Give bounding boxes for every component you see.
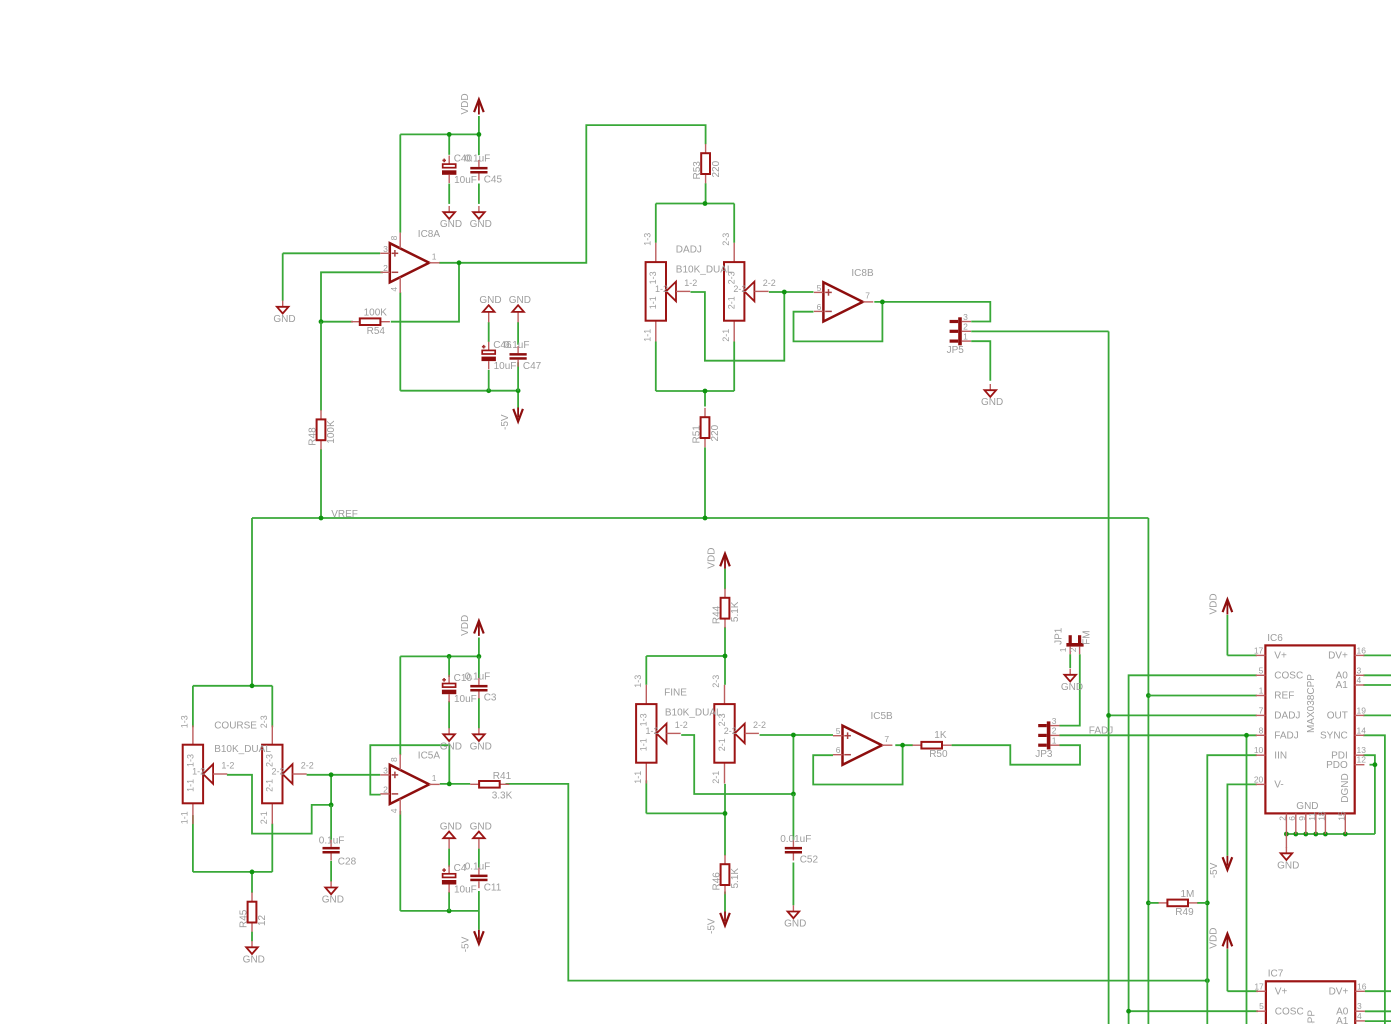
svg-text:0.1uF: 0.1uF	[465, 672, 491, 683]
svg-text:GND: GND	[440, 741, 462, 752]
svg-text:10uF: 10uF	[454, 175, 477, 186]
wire R53 to DADJ top rail	[656, 183, 734, 243]
svg-text:VDD: VDD	[1209, 928, 1220, 949]
svg-text:GND: GND	[470, 822, 492, 833]
op-amp IC5B	[833, 711, 893, 765]
wire R51 to VREF	[704, 447, 706, 518]
svg-text:2-1: 2-1	[717, 738, 727, 751]
svg-text:8: 8	[1259, 725, 1264, 735]
wire C11 pins	[478, 849, 480, 911]
wire FINE bottom rail to R46	[646, 780, 727, 855]
wire -5V rail IC8A	[400, 292, 520, 407]
wire R48 to VREF	[320, 322, 322, 518]
potentiometer FINE section 2	[711, 675, 766, 784]
svg-text:1-1: 1-1	[633, 771, 643, 784]
svg-text:100K: 100K	[326, 420, 337, 444]
svg-text:3.3K: 3.3K	[492, 791, 513, 802]
svg-text:1-1: 1-1	[642, 329, 652, 342]
svg-text:GND: GND	[440, 822, 462, 833]
svg-text:0.1uF: 0.1uF	[465, 861, 491, 872]
svg-text:VDD: VDD	[1209, 593, 1220, 614]
svg-text:VDD: VDD	[706, 548, 717, 569]
ground	[470, 206, 492, 230]
wire R49 taps	[1148, 902, 1207, 904]
svg-text:B10K_DUAL: B10K_DUAL	[665, 707, 722, 718]
svg-text:2-3: 2-3	[265, 754, 275, 767]
svg-text:FADJ: FADJ	[1089, 725, 1113, 736]
potentiometer FINE section 1	[633, 675, 688, 784]
svg-text:GND: GND	[1277, 860, 1299, 871]
svg-text:1M: 1M	[1181, 889, 1195, 900]
wire VDD via R44 to FINE	[724, 569, 726, 656]
wire COURSE bottom rail to R45	[193, 815, 272, 893]
wire IC6 V- to -5V	[1227, 784, 1257, 855]
capacitor C4 10uF (polarized)	[442, 863, 477, 895]
svg-text:VREF: VREF	[331, 509, 358, 520]
svg-text:18: 18	[1317, 811, 1327, 821]
ground	[1277, 847, 1299, 871]
svg-text:B10K_DUAL: B10K_DUAL	[676, 264, 733, 275]
svg-text:0.1uF: 0.1uF	[319, 835, 345, 846]
svg-text:2-2: 2-2	[733, 284, 746, 294]
svg-text:2-2: 2-2	[272, 767, 285, 777]
svg-text:5: 5	[817, 283, 822, 293]
svg-text:10uF: 10uF	[454, 885, 477, 896]
svg-text:1-1: 1-1	[185, 779, 195, 792]
label C52 0.01uF	[780, 834, 818, 866]
svg-text:4: 4	[1357, 1011, 1362, 1021]
svg-text:16: 16	[1357, 981, 1367, 991]
svg-text:5: 5	[836, 726, 841, 736]
resistor R44 5.1K	[711, 589, 741, 628]
svg-text:0.1uF: 0.1uF	[504, 340, 530, 351]
svg-text:5.1K: 5.1K	[730, 601, 741, 622]
wire -5V rail IC5A	[400, 811, 479, 930]
IC IC7 MAX038CPP	[1254, 969, 1366, 1029]
wire DADJ bottom rail to R51	[656, 342, 734, 407]
capacitor C10 10uF (polarized)	[442, 673, 477, 705]
svg-text:1-3: 1-3	[180, 715, 190, 728]
wire C28 pins	[330, 805, 332, 882]
svg-text:2-2: 2-2	[301, 760, 314, 770]
svg-text:COSC: COSC	[1275, 1006, 1304, 1017]
wire IC7 A1 out	[1365, 1020, 1391, 1022]
svg-text:2: 2	[1052, 726, 1057, 736]
svg-text:7: 7	[884, 734, 889, 744]
svg-text:C45: C45	[484, 175, 503, 186]
svg-text:2: 2	[963, 322, 968, 332]
capacitor C46 10uF (polarized)	[482, 340, 517, 372]
ground	[243, 941, 265, 965]
op-amp IC8A	[380, 229, 440, 293]
svg-text:GND: GND	[470, 219, 492, 230]
wire C3 pins	[478, 656, 480, 728]
svg-text:IC8B: IC8B	[851, 268, 874, 279]
svg-text:2-3: 2-3	[711, 675, 721, 688]
svg-text:GND: GND	[479, 295, 501, 306]
svg-text:GND: GND	[322, 895, 344, 906]
label C28 0.1uF	[319, 835, 357, 867]
label DADJ B10K_DUAL	[676, 244, 733, 275]
svg-text:DV+: DV+	[1329, 987, 1349, 998]
svg-text:VDD: VDD	[460, 615, 471, 636]
svg-text:16: 16	[1357, 645, 1367, 655]
svg-text:FADJ: FADJ	[1274, 731, 1298, 742]
svg-text:6: 6	[1287, 816, 1297, 821]
resistor R46 5.1K	[711, 855, 741, 894]
wire R45 to GND	[251, 932, 253, 942]
svg-text:PDO: PDO	[1326, 760, 1348, 771]
svg-text:1-3: 1-3	[648, 271, 658, 284]
capacitor C28 0.1uF	[323, 840, 340, 861]
svg-text:A1: A1	[1336, 680, 1349, 691]
capacitor C40 10uF (polarized)	[442, 154, 477, 186]
svg-text:V-: V-	[1274, 780, 1283, 791]
ground	[440, 206, 462, 230]
svg-text:SYNC: SYNC	[1320, 731, 1348, 742]
svg-text:JP3: JP3	[1035, 749, 1053, 760]
svg-text:1: 1	[432, 773, 437, 783]
svg-text:2-2: 2-2	[724, 726, 737, 736]
wire R46 to -5V	[724, 892, 726, 912]
wire IC8A pin2 feedback node	[319, 263, 459, 324]
svg-text:-5V: -5V	[500, 414, 511, 430]
svg-text:JP5: JP5	[947, 345, 965, 356]
wire net FADJ	[1059, 733, 1257, 1024]
jumper JP1	[1053, 627, 1092, 654]
VDD supply	[460, 615, 484, 636]
svg-text:1: 1	[963, 331, 968, 341]
resistor R49 1M	[1159, 889, 1198, 918]
svg-text:1-1: 1-1	[639, 738, 649, 751]
svg-text:1-3: 1-3	[642, 233, 652, 246]
wire net IIN	[1205, 755, 1257, 1024]
wire FINE top rail	[646, 654, 727, 685]
svg-text:2-3: 2-3	[259, 715, 269, 728]
wire IC5A feedback	[370, 745, 449, 794]
svg-text:GND: GND	[243, 954, 265, 965]
wire IC7 DV+ out	[1365, 990, 1391, 992]
wire net REF to IC6	[1148, 695, 1257, 697]
wire C47 pins	[517, 322, 519, 391]
VDD supply	[1209, 928, 1233, 949]
svg-text:R49: R49	[1175, 907, 1194, 918]
wire C45 to GND	[478, 184, 480, 204]
svg-text:2: 2	[383, 784, 388, 794]
-5V supply	[707, 912, 730, 935]
svg-text:3: 3	[383, 244, 388, 254]
svg-text:IC6: IC6	[1267, 633, 1283, 644]
svg-text:C3: C3	[484, 693, 497, 704]
svg-text:7: 7	[1259, 705, 1264, 715]
wire net SYNC	[1363, 735, 1385, 1024]
resistor R54 100K	[351, 308, 390, 337]
wire C40 to GND	[448, 184, 450, 204]
resistor R41 3.3K	[470, 771, 512, 802]
svg-text:R51: R51	[691, 425, 702, 444]
svg-text:1K: 1K	[934, 730, 947, 741]
wire COURSE top rail	[193, 683, 272, 727]
wire FINE wiper2 to IC5B pin5	[760, 733, 833, 797]
svg-text:10: 10	[1254, 745, 1264, 755]
capacitor C47 0.1uF	[504, 340, 542, 372]
svg-text:10uF: 10uF	[494, 361, 517, 372]
potentiometer DADJ section 1	[642, 233, 697, 342]
svg-text:IC8A: IC8A	[418, 229, 441, 240]
svg-text:14: 14	[1357, 725, 1367, 735]
svg-text:2-1: 2-1	[721, 329, 731, 342]
svg-text:9: 9	[1297, 816, 1307, 821]
resistor R50 1K	[913, 730, 952, 760]
capacitor C45 0.1uF	[465, 154, 503, 186]
wire IC8B output to JP5 pin3	[874, 300, 990, 322]
svg-text:VDD: VDD	[460, 93, 471, 114]
-5V supply	[500, 408, 523, 431]
potentiometer COURSE section 1	[180, 715, 235, 824]
svg-text:2-1: 2-1	[727, 296, 737, 309]
svg-text:1: 1	[1058, 647, 1068, 652]
ground	[273, 301, 295, 325]
ground	[981, 384, 1003, 408]
svg-text:A1: A1	[1336, 1016, 1349, 1024]
svg-text:2: 2	[383, 263, 388, 273]
svg-text:R53: R53	[692, 161, 703, 180]
ground	[440, 728, 462, 752]
capacitor C11 0.1uF	[465, 861, 502, 893]
svg-text:2: 2	[1068, 647, 1078, 652]
svg-text:20: 20	[1254, 774, 1264, 784]
svg-text:FM: FM	[1082, 630, 1093, 644]
svg-text:4: 4	[389, 287, 399, 292]
wire VDD rail IC8A	[400, 116, 481, 233]
svg-text:R46: R46	[711, 872, 722, 891]
wire C4 pins	[448, 849, 450, 911]
wire IC8A output to R53	[439, 125, 705, 265]
svg-text:C11: C11	[484, 882, 502, 893]
svg-text:1: 1	[1259, 686, 1264, 696]
wire IC6 GND stub	[1285, 834, 1287, 848]
svg-text:R50: R50	[929, 749, 948, 760]
svg-text:COURSE: COURSE	[214, 721, 257, 732]
svg-text:1-2: 1-2	[646, 726, 659, 736]
svg-text:1: 1	[432, 252, 437, 262]
label FINE B10K_DUAL	[664, 688, 722, 719]
svg-text:DV+: DV+	[1328, 651, 1348, 662]
op-amp IC8B	[814, 268, 874, 322]
svg-text:6: 6	[836, 745, 841, 755]
svg-text:5.1K: 5.1K	[730, 868, 741, 889]
svg-text:IIN: IIN	[1274, 750, 1287, 761]
wire IC5A output via R41 to IIN	[440, 782, 1210, 983]
svg-text:3: 3	[383, 765, 388, 775]
svg-text:3: 3	[1052, 716, 1057, 726]
VDD supply	[1209, 593, 1233, 614]
svg-text:V+: V+	[1275, 987, 1288, 998]
ground	[1061, 669, 1083, 693]
ground	[440, 822, 462, 849]
svg-text:12: 12	[1357, 755, 1367, 765]
svg-text:4: 4	[1357, 675, 1362, 685]
svg-text:19: 19	[1357, 705, 1367, 715]
svg-text:MAX038CPP: MAX038CPP	[1306, 674, 1317, 733]
wire JP1 pin1 to GND	[1069, 654, 1071, 668]
wire JP3 pin3 to JP1 pin2	[1059, 654, 1079, 725]
resistor R51 220	[691, 408, 721, 447]
svg-text:GND: GND	[1296, 801, 1318, 812]
svg-text:R45: R45	[238, 909, 249, 928]
jumper JP5	[947, 312, 971, 356]
wire C10 pins	[448, 656, 450, 728]
wire IC6 A0 out	[1363, 674, 1391, 676]
svg-text:MAX038CPP: MAX038CPP	[1307, 1010, 1318, 1024]
-5V supply	[1209, 856, 1232, 879]
svg-text:-5V: -5V	[1209, 862, 1220, 878]
ground	[784, 905, 806, 929]
jumper JP3	[1035, 716, 1059, 760]
svg-text:3: 3	[1357, 1001, 1362, 1011]
svg-text:13: 13	[1357, 745, 1367, 755]
svg-text:GND: GND	[470, 741, 492, 752]
resistor R48 100K	[307, 410, 337, 449]
wire FINE wiper1 route	[681, 735, 793, 794]
svg-text:GND: GND	[784, 919, 806, 930]
op-amp IC5A	[380, 750, 440, 814]
VDD supply	[460, 93, 484, 114]
svg-text:8: 8	[389, 235, 399, 240]
wire C46 pins	[488, 322, 490, 391]
svg-text:COSC: COSC	[1274, 671, 1303, 682]
svg-text:1-3: 1-3	[185, 754, 195, 767]
wire VDD to IC7 V+	[1227, 949, 1258, 991]
wire IC5B feedback	[813, 745, 902, 784]
ground	[322, 881, 344, 905]
wire net VREF	[252, 516, 1151, 1024]
svg-text:2-2: 2-2	[763, 278, 776, 288]
wire net DADJ (JP5 pin2)	[971, 331, 1108, 1024]
wire IC5B output via R50 to JP3	[895, 743, 1080, 765]
IC IC6 MAX038CPP	[1254, 633, 1366, 834]
svg-text:V+: V+	[1274, 651, 1287, 662]
svg-text:IC7: IC7	[1268, 969, 1284, 980]
svg-text:2-3: 2-3	[721, 233, 731, 246]
potentiometer DADJ section 2	[721, 233, 776, 342]
svg-text:1-1: 1-1	[180, 811, 190, 824]
svg-text:REF: REF	[1274, 691, 1294, 702]
ground	[470, 822, 492, 849]
svg-text:8: 8	[389, 757, 399, 762]
svg-text:100K: 100K	[364, 308, 388, 319]
svg-text:1-2: 1-2	[684, 278, 697, 288]
svg-text:1-3: 1-3	[633, 675, 643, 688]
svg-text:FINE: FINE	[664, 688, 687, 699]
svg-text:GND: GND	[273, 314, 295, 325]
svg-text:1-3: 1-3	[639, 713, 649, 726]
svg-text:220: 220	[710, 424, 721, 441]
svg-text:15: 15	[1337, 811, 1347, 821]
svg-text:0.1uF: 0.1uF	[465, 154, 491, 165]
wire VDD to IC6 V+	[1227, 615, 1257, 656]
svg-text:5: 5	[1259, 665, 1264, 675]
wire COURSE wipers to IC5A pin3	[227, 772, 380, 833]
svg-text:DADJ: DADJ	[676, 244, 702, 255]
svg-text:7: 7	[865, 291, 870, 301]
ground	[470, 728, 492, 752]
svg-text:R54: R54	[367, 326, 386, 337]
ground	[509, 295, 531, 322]
svg-text:C47: C47	[523, 361, 542, 372]
svg-text:GND: GND	[1061, 682, 1083, 693]
svg-text:IC5A: IC5A	[418, 750, 441, 761]
svg-text:C52: C52	[800, 855, 819, 866]
svg-text:1-2: 1-2	[192, 767, 205, 777]
svg-text:GND: GND	[981, 397, 1003, 408]
svg-text:0.01uF: 0.01uF	[780, 834, 811, 845]
wire IC6 A1 out	[1363, 684, 1391, 686]
svg-text:17: 17	[1254, 645, 1264, 655]
svg-text:DADJ: DADJ	[1274, 711, 1300, 722]
wire IC6 DV+ out	[1363, 654, 1391, 656]
svg-text:2-1: 2-1	[711, 771, 721, 784]
svg-text:-5V: -5V	[707, 918, 718, 934]
svg-text:R44: R44	[711, 605, 722, 624]
svg-text:1-1: 1-1	[648, 296, 658, 309]
svg-text:1-2: 1-2	[675, 720, 688, 730]
svg-text:11: 11	[1307, 812, 1317, 821]
wire net COSC	[1126, 675, 1258, 1024]
svg-text:JP1: JP1	[1053, 627, 1064, 645]
svg-text:3: 3	[1357, 665, 1362, 675]
wire IC8A pin3 to GND	[283, 253, 381, 300]
svg-text:2-1: 2-1	[265, 779, 275, 792]
svg-text:R41: R41	[493, 771, 512, 782]
svg-text:R48: R48	[307, 427, 318, 446]
svg-text:2-2: 2-2	[753, 720, 766, 730]
svg-text:IC5B: IC5B	[871, 711, 894, 722]
svg-text:B10K_DUAL: B10K_DUAL	[214, 744, 271, 755]
wire IC6 PDI/PDO to DGND rail	[1284, 755, 1377, 836]
VDD supply	[706, 548, 730, 569]
-5V supply	[461, 930, 484, 953]
resistor R53 220	[692, 144, 722, 183]
svg-text:1-2: 1-2	[221, 760, 234, 770]
svg-text:4: 4	[389, 808, 399, 813]
wire IC7 A0 out	[1365, 1010, 1391, 1012]
svg-text:GND: GND	[509, 295, 531, 306]
wire IC6 OUT	[1363, 714, 1391, 716]
svg-text:17: 17	[1254, 981, 1264, 991]
wire net DADJ to IC6	[1106, 713, 1257, 718]
capacitor C3 0.1uF	[465, 672, 497, 704]
wire JP5 pin1 to GND	[971, 341, 990, 381]
svg-text:GND: GND	[440, 219, 462, 230]
svg-text:C28: C28	[338, 856, 357, 867]
wire C52 pins	[792, 794, 794, 905]
capacitor C52 0.01uF	[785, 840, 802, 861]
resistor R45 12	[238, 892, 268, 931]
svg-text:6: 6	[817, 302, 822, 312]
svg-text:10uF: 10uF	[454, 694, 477, 705]
svg-text:5: 5	[1259, 1001, 1264, 1011]
svg-text:1: 1	[1052, 736, 1057, 746]
svg-text:220: 220	[711, 160, 722, 177]
svg-text:12: 12	[257, 914, 268, 926]
svg-text:-5V: -5V	[461, 936, 472, 952]
potentiometer COURSE section 2	[259, 715, 314, 824]
wire DADJ wipers to IC8B pin5	[691, 290, 814, 361]
label COURSE B10K_DUAL	[214, 721, 271, 756]
svg-text:1-2: 1-2	[655, 284, 668, 294]
svg-text:3: 3	[963, 312, 968, 322]
